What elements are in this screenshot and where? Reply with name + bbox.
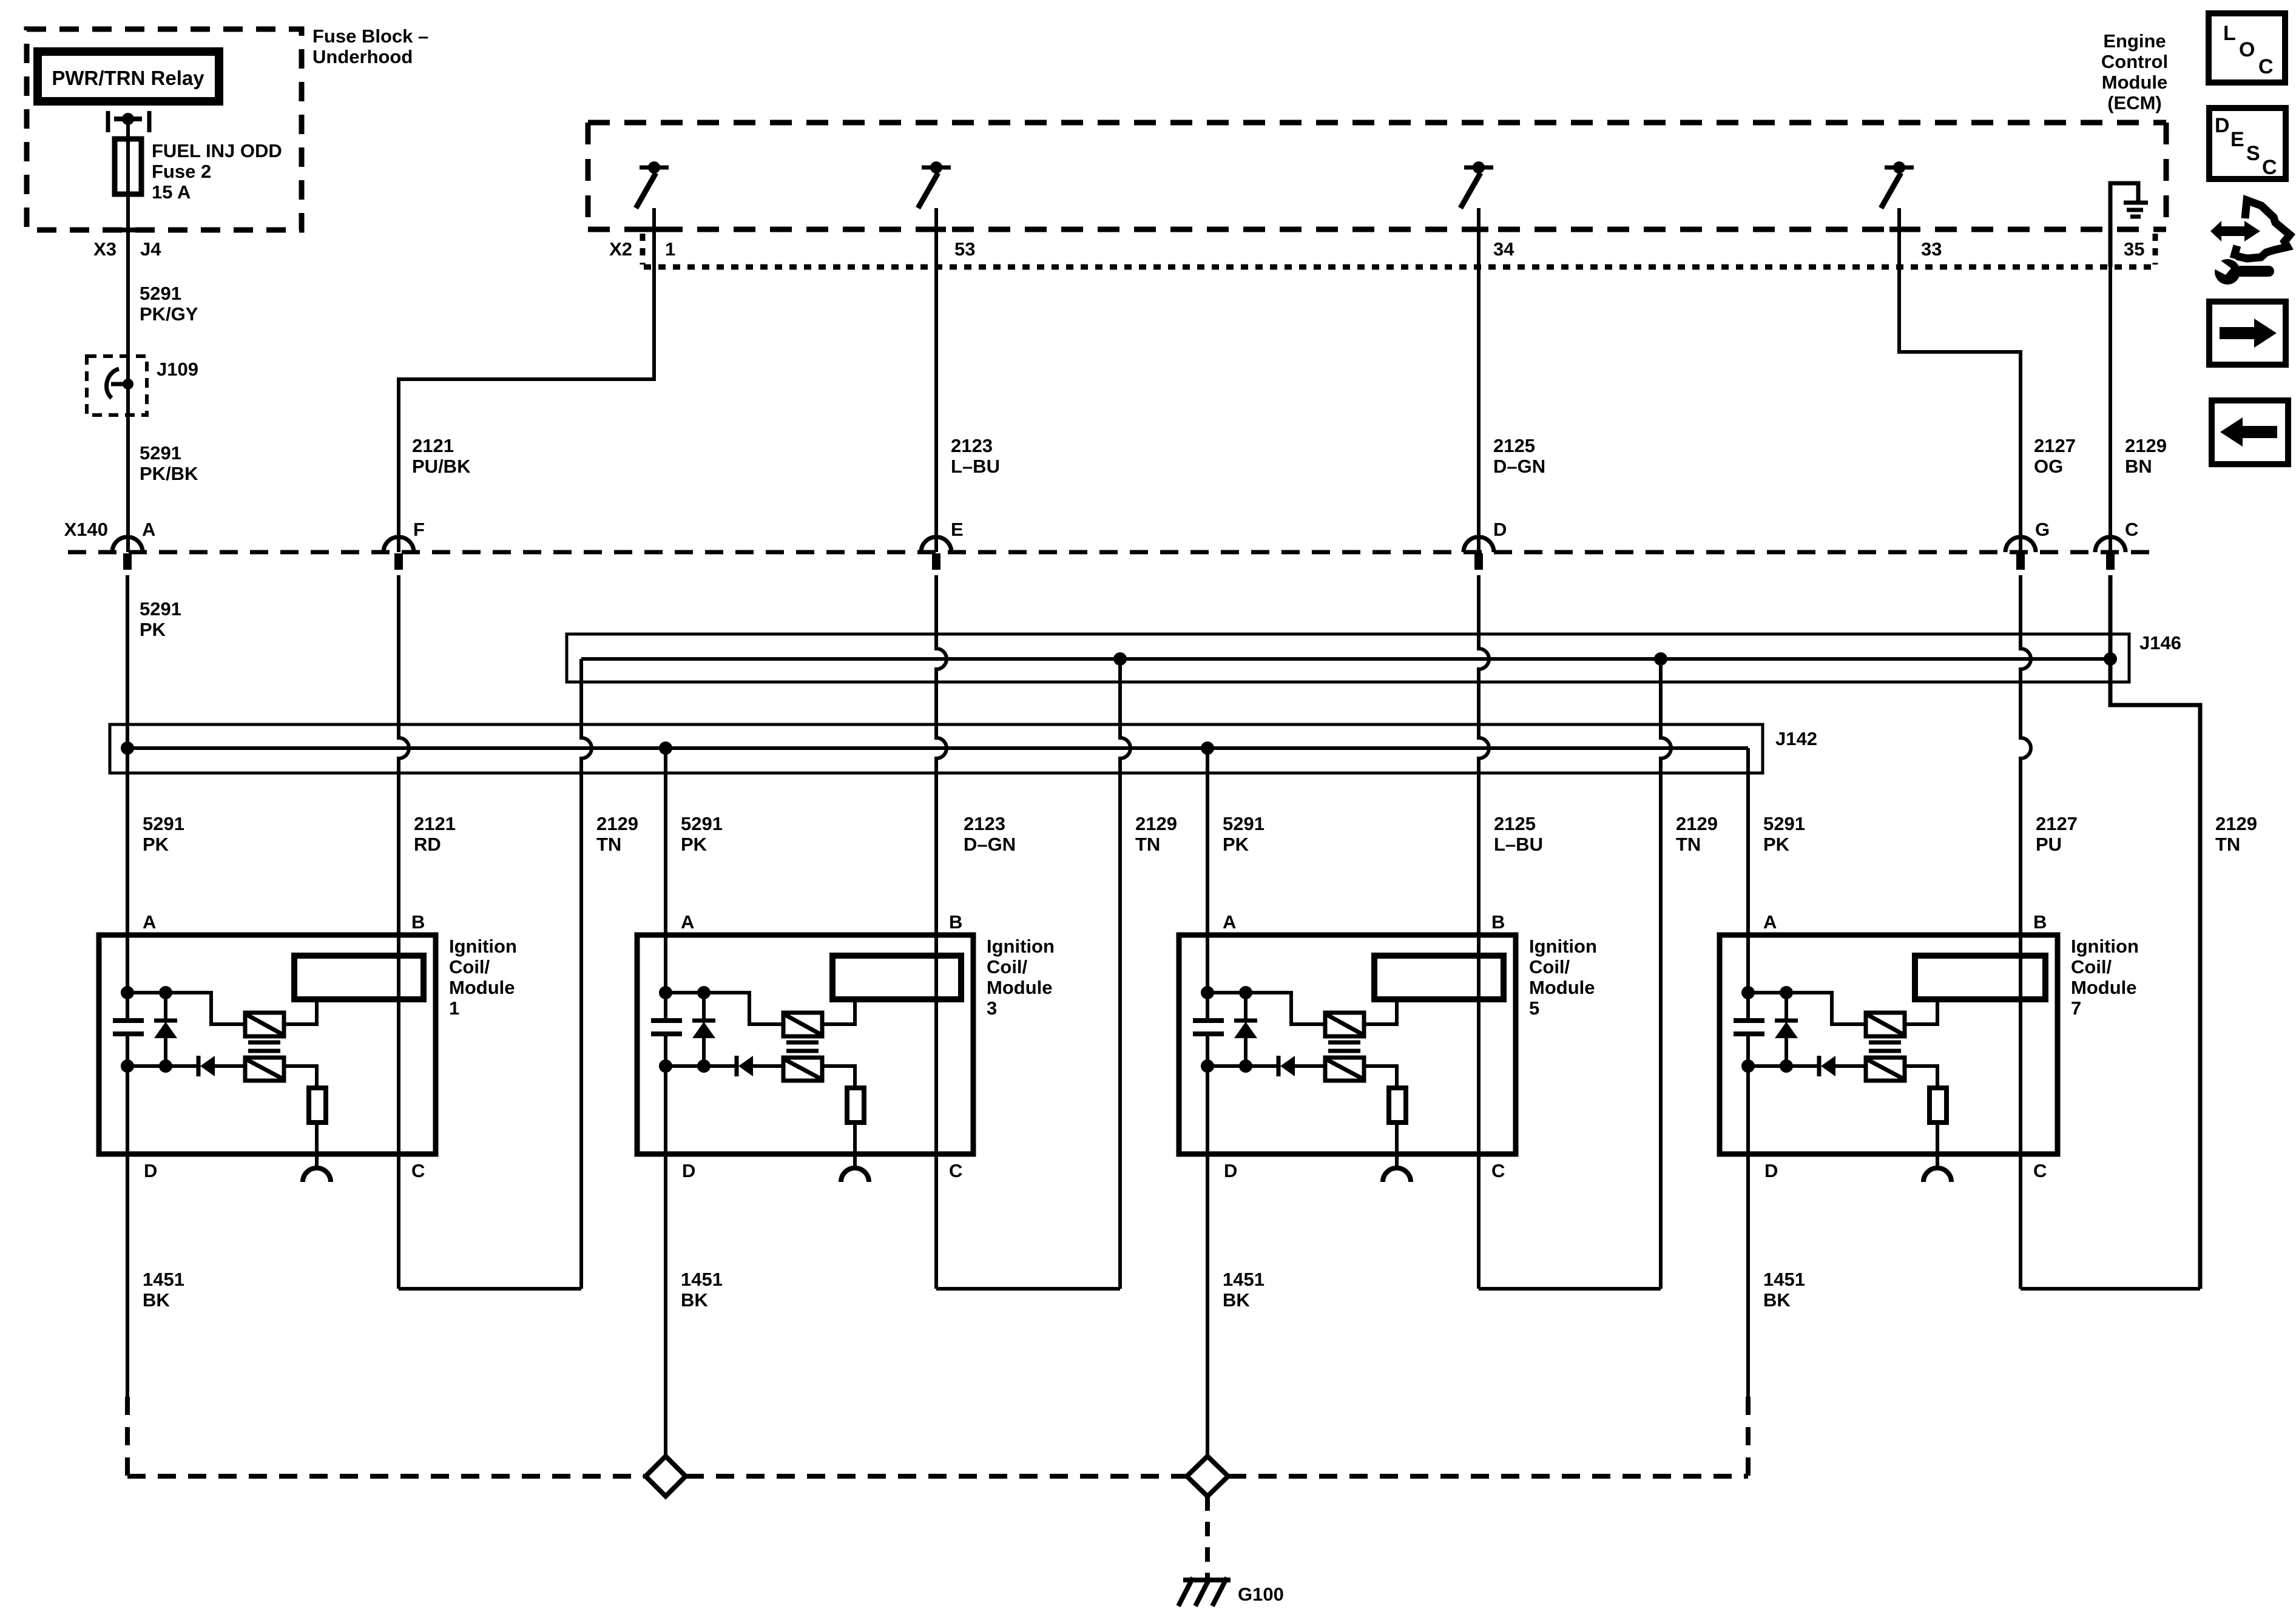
fuse F2: FUEL INJ ODD Fuse 2 15 A bbox=[115, 139, 141, 194]
module 5 wire to spark gap bbox=[1395, 1122, 1399, 1169]
pin tick at ECM edge pin 53 bbox=[927, 227, 946, 232]
relay K: PWR/TRN Relay box bbox=[38, 52, 219, 101]
ECM dashed box bbox=[588, 120, 2166, 126]
svg-text:Ignition: Ignition bbox=[449, 936, 517, 957]
svg-text:PK: PK bbox=[140, 619, 166, 640]
wire 1451 BK module3 D bbox=[664, 1154, 667, 1456]
svg-text:RD: RD bbox=[414, 834, 441, 855]
svg-text:PU/BK: PU/BK bbox=[412, 456, 471, 477]
module 3 capacitor bbox=[651, 1018, 682, 1023]
svg-text:5291: 5291 bbox=[1223, 813, 1264, 834]
svg-text:B: B bbox=[1491, 911, 1505, 933]
module 3 internal A/D wire lower bbox=[664, 1034, 667, 1154]
connector X140 pin D bbox=[1464, 537, 1494, 552]
module 7 wire to spark gap bbox=[1936, 1122, 1939, 1169]
back arrow icon box bbox=[2212, 400, 2288, 464]
svg-text:15 A: 15 A bbox=[152, 181, 191, 203]
junction J146 dot BN bbox=[2104, 652, 2117, 666]
ignition coil/module 1 box bbox=[99, 935, 436, 1154]
svg-text:D: D bbox=[2215, 114, 2230, 137]
splice J142 inner wire bbox=[127, 746, 1748, 750]
svg-text:BK: BK bbox=[143, 1289, 170, 1311]
module 5 coil link up bbox=[1364, 999, 1397, 1024]
svg-text:C: C bbox=[2258, 55, 2274, 78]
svg-text:TN: TN bbox=[1676, 834, 1701, 855]
pin 35 separator bbox=[2153, 234, 2158, 265]
ECM driver switch pin 33 bbox=[1885, 166, 1914, 170]
svg-text:D: D bbox=[1493, 519, 1507, 540]
dashed ground bus bbox=[127, 1474, 646, 1479]
svg-text:Module: Module bbox=[2071, 977, 2137, 998]
svg-text:5291: 5291 bbox=[140, 442, 181, 464]
dashed 1451 module7 bbox=[1746, 1397, 1751, 1476]
svg-text:D–GN: D–GN bbox=[1493, 456, 1545, 477]
junction J142 dot A1 bbox=[121, 741, 134, 755]
svg-text:7: 7 bbox=[2071, 998, 2081, 1019]
ignition coil/module 7 box bbox=[1720, 935, 2058, 1154]
svg-text:B: B bbox=[949, 911, 962, 933]
module 3 spark gap arc bbox=[841, 1168, 869, 1182]
svg-text:TN: TN bbox=[596, 834, 621, 855]
wire 5291 PK (A down thru J142 to module1) bbox=[126, 575, 129, 1021]
wire 1451 BK module7 D bbox=[1746, 1154, 1750, 1397]
svg-text:F: F bbox=[413, 519, 425, 540]
svg-text:2129: 2129 bbox=[596, 813, 638, 834]
junction J146 dot TN3 bbox=[1654, 652, 1667, 666]
svg-text:1451: 1451 bbox=[1763, 1269, 1805, 1290]
pin tick at ECM edge pin 1 bbox=[644, 227, 664, 232]
splice diamond at module3 bbox=[646, 1456, 686, 1496]
junction J146 dot TN2 bbox=[1113, 652, 1127, 666]
wire relay to fuse bbox=[126, 119, 130, 139]
module 3 coil HV block bbox=[832, 956, 961, 999]
svg-text:TN: TN bbox=[1135, 834, 1160, 855]
module 1 coil link down bbox=[284, 1066, 317, 1088]
module5 C wire down bbox=[1477, 1154, 1481, 1289]
module 1 coil HV block bbox=[294, 956, 424, 999]
wire 2129 BN/TN loop 4 bbox=[2110, 575, 2200, 1289]
svg-text:A: A bbox=[1223, 911, 1236, 933]
svg-text:3: 3 bbox=[987, 998, 997, 1019]
svg-text:Engine: Engine bbox=[2103, 30, 2166, 52]
wire 2129 TN loop 2 bbox=[1120, 659, 1130, 1289]
svg-text:2129: 2129 bbox=[1676, 813, 1718, 834]
module 7 resistor bbox=[1930, 1088, 1947, 1122]
svg-text:53: 53 bbox=[954, 238, 975, 260]
svg-text:(ECM): (ECM) bbox=[2107, 92, 2162, 113]
svg-text:Module: Module bbox=[987, 977, 1053, 998]
module 1 primary coil bbox=[245, 1013, 284, 1036]
svg-text:2121: 2121 bbox=[412, 435, 454, 456]
module 5 zener diode bbox=[1244, 993, 1248, 1021]
wire 2121 PU/BK (pin1 to F) bbox=[399, 208, 654, 552]
svg-text:2125: 2125 bbox=[1493, 435, 1535, 456]
svg-text:Coil/: Coil/ bbox=[2071, 956, 2112, 977]
module 5 capacitor bbox=[1193, 1018, 1224, 1023]
svg-text:Ignition: Ignition bbox=[2071, 936, 2139, 957]
svg-text:C: C bbox=[949, 1160, 962, 1181]
svg-text:PK: PK bbox=[1763, 834, 1790, 855]
svg-text:L–BU: L–BU bbox=[1494, 834, 1543, 855]
wire 2129 TN loop 1 bbox=[581, 659, 592, 1289]
wire 2125 D-GN (pin34 to D) bbox=[1477, 208, 1481, 552]
svg-text:5291: 5291 bbox=[140, 283, 181, 304]
svg-text:2125: 2125 bbox=[1494, 813, 1536, 834]
module 3 secondary coil bbox=[783, 1058, 822, 1081]
module 5 core bbox=[1328, 1041, 1360, 1045]
svg-text:1: 1 bbox=[665, 238, 675, 260]
ECM driver switch pin 34 bbox=[1464, 166, 1493, 170]
svg-text:Module: Module bbox=[1529, 977, 1595, 998]
wire 2127 OG (pin33 to G) bbox=[1899, 208, 2021, 552]
module3 C wire down bbox=[934, 1154, 938, 1289]
module 3 zener diode bbox=[702, 993, 706, 1021]
svg-text:2129: 2129 bbox=[2125, 435, 2167, 456]
module 1 secondary coil bbox=[245, 1058, 284, 1081]
svg-text:2127: 2127 bbox=[2036, 813, 2078, 834]
svg-text:PU: PU bbox=[2036, 834, 2062, 855]
svg-text:Fuse 2: Fuse 2 bbox=[152, 161, 211, 182]
svg-text:PK: PK bbox=[143, 834, 169, 855]
dashed wire to G100 bbox=[1205, 1496, 1210, 1578]
module 7 primary coil bbox=[1866, 1013, 1905, 1036]
fuse block - underhood dashed box bbox=[27, 29, 302, 230]
module 7 internal A wire upper bbox=[1746, 935, 1750, 1021]
module 7 diode bbox=[1748, 1064, 1818, 1068]
module 1 wire to spark gap bbox=[315, 1122, 319, 1169]
svg-text:BK: BK bbox=[681, 1289, 708, 1311]
ignition coil/module 3 box bbox=[637, 935, 973, 1154]
module 3 primary coil bbox=[783, 1013, 822, 1036]
module 5 coil link down bbox=[1364, 1066, 1397, 1088]
svg-text:C: C bbox=[1491, 1160, 1505, 1181]
connector X140 pin G bbox=[2005, 537, 2036, 552]
svg-text:X3: X3 bbox=[93, 238, 116, 260]
module7 C wire down bbox=[2019, 1154, 2022, 1289]
wire 5291 PK (J142 to module7 A) bbox=[1746, 748, 1750, 1021]
svg-text:Module: Module bbox=[2102, 72, 2168, 93]
ground G100 symbol bbox=[1183, 1578, 1231, 1582]
module 5 internal B/C wire bbox=[1477, 935, 1481, 1154]
splice diamond at module5 bbox=[1187, 1456, 1228, 1496]
svg-text:D: D bbox=[1764, 1160, 1778, 1181]
splice J109 dashed box bbox=[87, 356, 147, 415]
connector X140 pin A bbox=[112, 537, 143, 552]
svg-text:OG: OG bbox=[2034, 456, 2063, 477]
svg-text:Coil/: Coil/ bbox=[1529, 956, 1570, 977]
svg-text:Underhood: Underhood bbox=[312, 46, 413, 67]
module 5 wire to primary coil bbox=[1207, 993, 1325, 1024]
module 3 internal A wire upper bbox=[664, 935, 667, 1021]
module 5 secondary coil bbox=[1325, 1058, 1364, 1081]
module 1 internal A wire upper bbox=[126, 935, 129, 1021]
wire 2123 D-GN (E to module3 B) bbox=[936, 575, 947, 935]
TN loop1 bottom bbox=[399, 1287, 581, 1291]
svg-text:2123: 2123 bbox=[951, 435, 993, 456]
svg-text:2129: 2129 bbox=[1135, 813, 1177, 834]
connector X140 pin F bbox=[383, 537, 414, 552]
wire 5291 PK (J142 to module5 A) bbox=[1206, 748, 1209, 1021]
relay contact terminal bbox=[106, 111, 110, 132]
svg-text:S: S bbox=[2246, 142, 2260, 165]
module 5 resistor bbox=[1389, 1088, 1406, 1122]
module 1 capacitor bbox=[113, 1018, 144, 1023]
X2 separator bbox=[640, 234, 646, 265]
module 1 core bbox=[248, 1041, 280, 1045]
module 3 diode bbox=[666, 1064, 735, 1068]
module 7 internal A/D wire lower bbox=[1746, 1034, 1750, 1154]
module 7 core bbox=[1869, 1041, 1901, 1045]
svg-text:TN: TN bbox=[2215, 834, 2240, 855]
dashed 1451 module1 bbox=[125, 1397, 130, 1476]
svg-text:C: C bbox=[2125, 519, 2138, 540]
splice bus J142 box bbox=[110, 724, 1763, 773]
svg-text:L–BU: L–BU bbox=[951, 456, 1000, 477]
svg-text:2121: 2121 bbox=[414, 813, 456, 834]
module 5 diode bbox=[1207, 1064, 1277, 1068]
module 1 zener diode bbox=[164, 993, 167, 1021]
ECM internal ground symbol (pin 35) bbox=[2110, 183, 2138, 267]
module1 C wire down bbox=[397, 1154, 400, 1289]
splice J109 symbol bbox=[106, 369, 119, 398]
module 3 coil link up bbox=[822, 999, 855, 1024]
svg-text:D–GN: D–GN bbox=[964, 834, 1016, 855]
svg-text:L: L bbox=[2223, 22, 2236, 45]
module 1 spark gap arc bbox=[303, 1168, 331, 1182]
pin tick at fuse block edge bbox=[120, 228, 150, 232]
module 3 core bbox=[786, 1041, 819, 1045]
connector X140 pin C bbox=[2095, 537, 2125, 552]
svg-text:G100: G100 bbox=[1238, 1584, 1284, 1605]
module 7 coil HV block bbox=[1915, 956, 2045, 999]
svg-text:C: C bbox=[411, 1160, 425, 1181]
module 1 diode bbox=[127, 1064, 197, 1068]
wire 2121 RD (F to module1 B) bbox=[399, 575, 409, 935]
module 1 resistor bbox=[309, 1088, 326, 1122]
svg-text:2123: 2123 bbox=[964, 813, 1005, 834]
module 5 spark gap arc bbox=[1383, 1168, 1411, 1182]
svg-text:A: A bbox=[681, 911, 694, 933]
wire 1451 BK module1 D bbox=[126, 1154, 129, 1397]
svg-text:J4: J4 bbox=[140, 238, 161, 260]
svg-text:PK/BK: PK/BK bbox=[140, 463, 198, 484]
svg-text:BK: BK bbox=[1763, 1289, 1791, 1311]
svg-text:C: C bbox=[2262, 156, 2277, 179]
svg-text:X140: X140 bbox=[64, 519, 108, 540]
svg-text:PK: PK bbox=[1223, 834, 1249, 855]
module 3 resistor bbox=[847, 1088, 864, 1122]
svg-text:BN: BN bbox=[2125, 456, 2152, 477]
module 7 zener diode bbox=[1784, 993, 1788, 1021]
svg-text:E: E bbox=[2230, 128, 2244, 151]
module 1 internal A/D wire lower bbox=[126, 1034, 129, 1154]
svg-text:Ignition: Ignition bbox=[1529, 936, 1597, 957]
connector X140 pin E bbox=[921, 537, 951, 552]
svg-text:5: 5 bbox=[1529, 998, 1539, 1019]
svg-text:J142: J142 bbox=[1775, 728, 1817, 749]
wire 2129 TN loop 3 bbox=[1661, 659, 1671, 1289]
connector X2 dotted line bbox=[644, 265, 2155, 270]
svg-text:D: D bbox=[144, 1160, 157, 1181]
svg-text:B: B bbox=[2033, 911, 2047, 933]
module 7 wire to primary coil bbox=[1748, 993, 1866, 1024]
svg-text:Fuse Block –: Fuse Block – bbox=[312, 25, 428, 47]
svg-text:1451: 1451 bbox=[143, 1269, 184, 1290]
svg-text:33: 33 bbox=[1921, 238, 1942, 260]
svg-text:34: 34 bbox=[1493, 238, 1514, 260]
module 1 coil link up bbox=[284, 999, 317, 1024]
hand/double-arrow/wrench icon bbox=[2210, 221, 2260, 241]
svg-text:E: E bbox=[951, 519, 964, 540]
svg-text:A: A bbox=[143, 911, 156, 933]
TN loop2 bottom bbox=[936, 1287, 1120, 1291]
module 7 capacitor bbox=[1734, 1018, 1764, 1023]
wire 2127 PU (G to module7 B) bbox=[2021, 575, 2031, 935]
wire 1451 BK module5 D bbox=[1206, 1154, 1209, 1456]
svg-text:A: A bbox=[142, 519, 155, 540]
module 3 coil link down bbox=[822, 1066, 855, 1088]
svg-text:Ignition: Ignition bbox=[987, 936, 1055, 957]
module 3 wire to spark gap bbox=[853, 1122, 857, 1169]
forward arrow icon box bbox=[2209, 302, 2286, 365]
svg-text:J146: J146 bbox=[2139, 632, 2181, 653]
wire 2125 L-BU (D to module5 B) bbox=[1479, 575, 1489, 935]
module 5 coil HV block bbox=[1374, 956, 1504, 999]
junction J142 dot A5 bbox=[1201, 741, 1214, 755]
svg-text:D: D bbox=[682, 1160, 695, 1181]
LOC icon box bbox=[2209, 13, 2285, 83]
wire 2123 L-BU (pin53 to E) bbox=[934, 208, 938, 552]
splice J146 inner wire bbox=[581, 657, 2110, 661]
svg-text:FUEL INJ ODD: FUEL INJ ODD bbox=[152, 140, 282, 161]
pin tick at ECM edge pin 34 bbox=[1469, 227, 1488, 232]
wire 2129 BN (pin35 to C) bbox=[2109, 267, 2112, 552]
module 7 internal B/C wire bbox=[2019, 935, 2022, 1154]
DESC icon box bbox=[2209, 108, 2286, 179]
svg-text:1451: 1451 bbox=[1223, 1269, 1264, 1290]
svg-text:5291: 5291 bbox=[143, 813, 184, 834]
module 7 spark gap arc bbox=[1923, 1168, 1951, 1182]
junction J142 dot A3 bbox=[659, 741, 672, 755]
svg-text:J109: J109 bbox=[157, 359, 198, 380]
svg-text:1: 1 bbox=[449, 998, 459, 1019]
svg-text:O: O bbox=[2239, 38, 2255, 61]
module 3 wire to primary coil bbox=[666, 993, 783, 1024]
module 1 wire to primary coil bbox=[127, 993, 245, 1024]
pin tick at ECM edge pin 33 bbox=[1889, 227, 1909, 232]
svg-text:1451: 1451 bbox=[681, 1269, 723, 1290]
module 3 internal B/C wire bbox=[934, 935, 938, 1154]
svg-text:B: B bbox=[411, 911, 425, 933]
wire fuse through J109 to connector X140-A bbox=[126, 194, 130, 552]
svg-text:5291: 5291 bbox=[681, 813, 723, 834]
svg-text:2127: 2127 bbox=[2034, 435, 2076, 456]
svg-text:A: A bbox=[1763, 911, 1777, 933]
svg-text:X2: X2 bbox=[609, 238, 632, 260]
ignition coil/module 5 box bbox=[1179, 935, 1516, 1154]
module 7 coil link up bbox=[1905, 999, 1937, 1024]
module 1 internal B/C wire bbox=[397, 935, 400, 1154]
svg-text:G: G bbox=[2035, 519, 2050, 540]
TN loop3 bottom bbox=[1479, 1287, 1661, 1291]
svg-text:D: D bbox=[1224, 1160, 1237, 1181]
svg-text:Control: Control bbox=[2101, 51, 2168, 72]
svg-text:35: 35 bbox=[2124, 238, 2144, 260]
svg-text:C: C bbox=[2033, 1160, 2047, 1181]
TN loop4 bottom bbox=[2021, 1287, 2200, 1291]
ECM driver switch pin 53 bbox=[922, 166, 951, 170]
svg-text:5291: 5291 bbox=[140, 598, 181, 619]
ECM driver switch pin 1 bbox=[640, 166, 669, 170]
module 5 internal A wire upper bbox=[1206, 935, 1209, 1021]
svg-text:BK: BK bbox=[1223, 1289, 1250, 1311]
svg-text:PWR/TRN Relay: PWR/TRN Relay bbox=[52, 67, 204, 89]
svg-text:PK/GY: PK/GY bbox=[140, 303, 198, 325]
svg-text:5291: 5291 bbox=[1763, 813, 1805, 834]
module 5 internal A/D wire lower bbox=[1206, 1034, 1209, 1154]
svg-text:Coil/: Coil/ bbox=[449, 956, 490, 977]
splice bus J146 box bbox=[567, 634, 2129, 682]
module 7 secondary coil bbox=[1866, 1058, 1905, 1081]
wire 5291 PK (J142 to module3 A) bbox=[664, 748, 667, 1021]
svg-text:Coil/: Coil/ bbox=[987, 956, 1028, 977]
module 7 coil link down bbox=[1905, 1066, 1937, 1088]
svg-text:PK: PK bbox=[681, 834, 707, 855]
connector X140 dashed line bbox=[68, 550, 2151, 555]
module 5 primary coil bbox=[1325, 1013, 1364, 1036]
svg-text:Module: Module bbox=[449, 977, 515, 998]
svg-text:2129: 2129 bbox=[2215, 813, 2257, 834]
